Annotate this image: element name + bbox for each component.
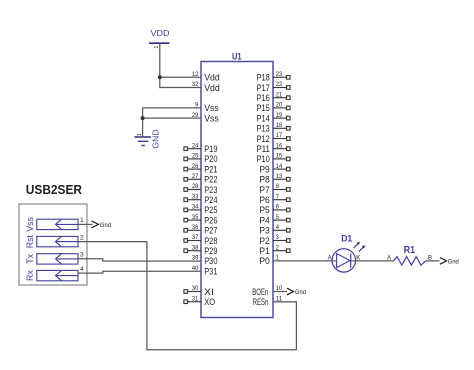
svg-text:D1: D1 (341, 232, 352, 243)
pin 1 P0 (U1 right) (259, 255, 279, 267)
IC U1 body (201, 62, 273, 318)
pin 10 BOEn (U1 right) (252, 285, 282, 297)
svg-text:U1: U1 (232, 50, 242, 61)
pin 11 RESn (U1 right) (253, 295, 283, 307)
power symbol VDD (149, 28, 170, 43)
pin 19 P14 (U1 right) (257, 112, 291, 124)
pin 25 P20 (U1 left) (184, 153, 218, 165)
svg-text:37: 37 (192, 234, 199, 241)
wire Vss pin 29 (142, 117, 201, 119)
wire VDD to Vdd pin 12 (159, 76, 201, 78)
svg-text:1: 1 (154, 46, 160, 49)
pin 32 Vdd (U1 left) (192, 81, 220, 93)
svg-text:25: 25 (192, 153, 199, 160)
svg-text:7: 7 (276, 193, 279, 200)
svg-text:P24: P24 (204, 195, 217, 205)
svg-text:P23: P23 (204, 185, 217, 195)
pin 29 Vss (U1 left) (192, 112, 219, 124)
svg-text:P4: P4 (259, 215, 269, 225)
svg-text:P0: P0 (259, 256, 269, 266)
svg-text:Vss: Vss (204, 103, 219, 113)
wire Vss pin 9 (142, 107, 201, 109)
svg-text:P8: P8 (259, 175, 269, 185)
svg-text:40: 40 (192, 265, 199, 272)
svg-text:P29: P29 (204, 246, 217, 256)
pin 34 P25 (U1 left) (184, 204, 218, 216)
svg-text:3: 3 (276, 234, 279, 241)
svg-text:P10: P10 (257, 154, 270, 164)
svg-text:16: 16 (276, 142, 283, 149)
pin 21 P16 (U1 right) (257, 91, 291, 103)
svg-text:P5: P5 (259, 205, 269, 215)
pin 7 P6 (U1 right) (259, 193, 290, 205)
svg-text:15: 15 (276, 153, 283, 160)
svg-text:P18: P18 (257, 73, 270, 83)
pin 13 P8 (U1 right) (259, 173, 290, 185)
svg-text:P3: P3 (259, 226, 269, 236)
pin 14 P9 (U1 right) (259, 163, 290, 175)
svg-text:Gnd: Gnd (448, 258, 459, 265)
svg-text:31: 31 (192, 295, 199, 302)
pin 30 XI (U1 left) (184, 285, 214, 297)
svg-text:GND: GND (150, 129, 160, 149)
svg-text:P15: P15 (257, 103, 270, 113)
wire USB2SER pin 1 to Gnd (78, 223, 93, 225)
svg-text:USB2SER: USB2SER (26, 182, 83, 197)
connector pin 2 (Rst) (37, 234, 84, 246)
svg-text:P17: P17 (257, 83, 270, 93)
svg-text:33: 33 (192, 193, 199, 200)
svg-text:11: 11 (276, 295, 283, 302)
svg-text:22: 22 (276, 81, 283, 88)
svg-text:26: 26 (192, 163, 199, 170)
pin 6 P5 (U1 right) (259, 204, 290, 216)
svg-text:1: 1 (80, 217, 84, 224)
svg-text:4: 4 (80, 266, 84, 273)
wire D1 cathode to R1 (356, 260, 394, 262)
wire Rst net (USB2SER pin 2 to RESn loop) (78, 242, 296, 350)
pin 36 P27 (U1 left) (184, 224, 218, 236)
pin 2 P1 (U1 right) (259, 244, 290, 256)
svg-text:29: 29 (192, 112, 199, 119)
svg-text:30: 30 (192, 285, 199, 292)
svg-text:P2: P2 (259, 236, 269, 246)
svg-text:13: 13 (276, 173, 283, 180)
pin 15 P10 (U1 right) (257, 153, 291, 165)
svg-text:A: A (387, 256, 391, 262)
svg-text:Gnd: Gnd (295, 289, 306, 296)
svg-text:P31: P31 (204, 266, 217, 276)
svg-text:27: 27 (192, 173, 199, 180)
svg-text:2: 2 (276, 244, 279, 251)
svg-text:R1: R1 (404, 245, 416, 256)
svg-text:RESn: RESn (253, 297, 269, 307)
svg-text:Rx: Rx (25, 270, 35, 281)
wire P0 to D1 anode (273, 260, 332, 262)
svg-text:P28: P28 (204, 236, 217, 246)
pin 16 P11 (U1 right) (257, 142, 291, 154)
svg-text:34: 34 (192, 204, 199, 211)
svg-text:28: 28 (192, 183, 199, 190)
connector pin 1 (Vss) (37, 217, 84, 229)
pin 40 P31 (U1 left) (192, 265, 218, 277)
resistor R1 (394, 257, 426, 266)
svg-text:P13: P13 (257, 124, 270, 134)
net arrow Gnd (USB2SER pin 1) (92, 221, 112, 229)
svg-text:23: 23 (276, 71, 283, 78)
svg-text:2: 2 (80, 234, 84, 241)
svg-text:P7: P7 (259, 185, 269, 195)
svg-text:14: 14 (276, 163, 283, 170)
svg-text:Vss: Vss (204, 113, 219, 123)
connector pin 4 (Rx) (37, 266, 84, 281)
pin 4 P3 (U1 right) (259, 224, 290, 236)
svg-text:19: 19 (276, 112, 283, 119)
wire R1 to Gnd (426, 260, 440, 262)
pin 27 P22 (U1 left) (184, 173, 218, 185)
pin 31 XO (U1 left) (184, 295, 215, 307)
svg-text:P6: P6 (259, 195, 269, 205)
svg-text:8: 8 (276, 183, 279, 190)
svg-text:A: A (328, 256, 332, 262)
svg-text:P26: P26 (204, 215, 217, 225)
svg-text:Rst: Rst (25, 234, 35, 248)
pin 18 P13 (U1 right) (257, 122, 291, 134)
svg-text:5: 5 (276, 214, 279, 221)
svg-text:K: K (356, 256, 360, 262)
net arrow Gnd (R1) (440, 258, 459, 266)
svg-text:Vdd: Vdd (204, 83, 220, 93)
svg-text:P11: P11 (257, 144, 270, 154)
wire VDD to Vdd pin 32 (159, 87, 201, 89)
net arrow Gnd (BOEn) (287, 288, 306, 296)
pin 38 P29 (U1 left) (184, 244, 218, 256)
pin 35 P26 (U1 left) (184, 214, 218, 226)
svg-text:18: 18 (276, 122, 283, 129)
wire GND vertical (142, 107, 144, 137)
svg-text:Vdd: Vdd (204, 73, 220, 83)
svg-text:BOEn: BOEn (252, 287, 268, 297)
svg-text:21: 21 (276, 91, 283, 98)
svg-text:P19: P19 (204, 144, 217, 154)
svg-text:XI: XI (204, 287, 214, 297)
svg-text:P30: P30 (204, 256, 217, 266)
pin 23 P18 (U1 right) (257, 71, 291, 83)
pin 37 P28 (U1 left) (184, 234, 218, 246)
svg-text:Tx: Tx (25, 253, 35, 263)
svg-text:P25: P25 (204, 205, 217, 215)
pin 39 P30 (U1 left) (192, 255, 218, 267)
svg-text:VDD: VDD (151, 28, 170, 38)
pin 9 Vss (U1 left) (195, 102, 219, 114)
svg-text:36: 36 (192, 224, 199, 231)
pin 33 P24 (U1 left) (184, 193, 218, 205)
junction VDD node (158, 75, 162, 79)
svg-text:XO: XO (204, 297, 215, 307)
pin 24 P19 (U1 left) (184, 142, 218, 154)
svg-text:24: 24 (192, 142, 199, 149)
svg-text:P20: P20 (204, 154, 217, 164)
wire Rx net (USB2SER pin 4 to P31) (78, 271, 201, 273)
pin 22 P17 (U1 right) (257, 81, 291, 93)
svg-text:20: 20 (276, 102, 283, 109)
svg-text:Gnd: Gnd (100, 222, 112, 229)
ground symbol GND (134, 137, 151, 146)
svg-text:P9: P9 (259, 164, 269, 174)
svg-text:6: 6 (276, 204, 279, 211)
LED D1 (332, 242, 365, 273)
svg-text:38: 38 (192, 244, 199, 251)
svg-text:12: 12 (192, 71, 199, 78)
svg-text:9: 9 (195, 102, 198, 109)
svg-text:32: 32 (192, 81, 199, 88)
pin 12 Vdd (U1 left) (192, 71, 220, 83)
svg-text:P27: P27 (204, 226, 217, 236)
pin 26 P21 (U1 left) (184, 163, 218, 175)
svg-text:Vss: Vss (25, 216, 35, 231)
pin 5 P4 (U1 right) (259, 214, 290, 226)
svg-text:17: 17 (276, 132, 283, 139)
svg-text:4: 4 (276, 224, 279, 231)
wire VDD vertical drop (159, 43, 161, 88)
svg-text:P16: P16 (257, 93, 270, 103)
junction VSS node (141, 116, 145, 120)
pin 28 P23 (U1 left) (184, 183, 218, 195)
svg-text:3: 3 (80, 252, 84, 259)
pin 20 P15 (U1 right) (257, 102, 291, 114)
connector USB2SER body (19, 204, 87, 285)
svg-text:P1: P1 (259, 246, 269, 256)
svg-text:P12: P12 (257, 134, 270, 144)
pin 17 P12 (U1 right) (257, 132, 291, 144)
pin 3 P2 (U1 right) (259, 234, 290, 246)
svg-text:P21: P21 (204, 164, 217, 174)
wire Tx net (USB2SER pin 3 to P30) (78, 259, 201, 261)
svg-text:P14: P14 (257, 113, 270, 123)
svg-text:P22: P22 (204, 175, 217, 185)
wire BOEn pin 10 stub (273, 291, 287, 293)
connector pin 3 (Tx) (37, 252, 84, 265)
svg-text:35: 35 (192, 214, 199, 221)
pin 8 P7 (U1 right) (259, 183, 290, 195)
svg-text:39: 39 (192, 255, 199, 262)
